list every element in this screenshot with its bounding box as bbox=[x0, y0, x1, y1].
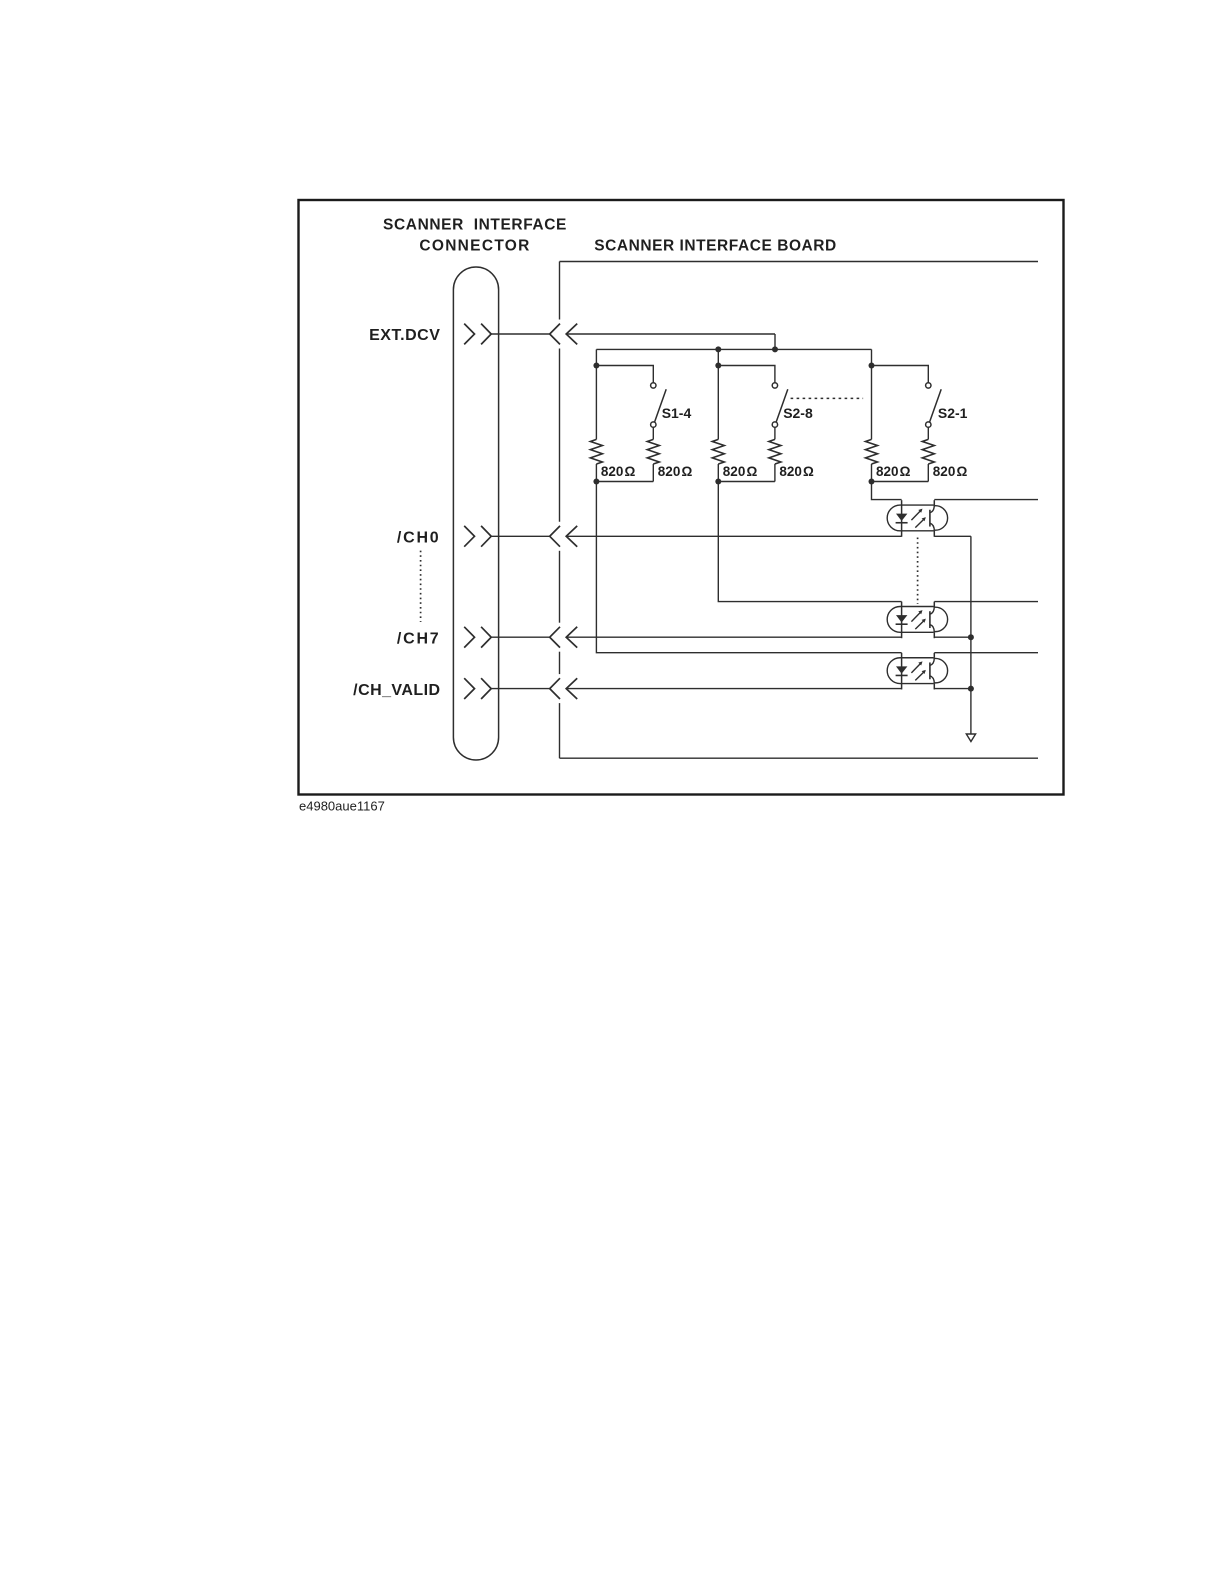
svg-text:820 Ω: 820 Ω bbox=[723, 464, 758, 479]
svg-text:820 Ω: 820 Ω bbox=[779, 464, 814, 479]
resistor R2a 820&#937; (pair2 left) bbox=[712, 439, 724, 464]
connector pins &gt;&gt; /CH_VALID bbox=[464, 678, 474, 699]
node pair1 bottom junction bbox=[593, 479, 599, 485]
svg-text:SCANNER INTERFACE BOARD: SCANNER INTERFACE BOARD bbox=[594, 238, 837, 255]
resistor R3a 820&#937; (pair3 left) bbox=[866, 439, 878, 464]
optocoupler U2 bbox=[887, 602, 947, 639]
switch S2-1 bbox=[926, 383, 931, 388]
node bus-pair2 junction bbox=[715, 346, 721, 352]
wire U1 collector output bbox=[934, 499, 1038, 501]
board pins &lt;&lt; /CH7 bbox=[550, 627, 560, 648]
wire U3 collector output bbox=[934, 652, 1038, 654]
connector pins &gt;&gt; EXT.DCV bbox=[464, 324, 474, 345]
wire pair2 right leg bottom bbox=[774, 464, 776, 482]
wire pair3 switch-to-resistor bbox=[927, 427, 929, 439]
figure frame bbox=[299, 200, 1064, 795]
svg-text:/CH0: /CH0 bbox=[397, 530, 441, 547]
node rail-U2 junction bbox=[968, 634, 974, 640]
switch S1-4 bbox=[651, 383, 656, 388]
wire EXT.DCV connector-to-board bbox=[491, 333, 550, 335]
svg-text:CONNECTOR: CONNECTOR bbox=[419, 238, 530, 255]
wire EXT.DCV to divider network bbox=[566, 333, 775, 335]
svg-text:820 Ω: 820 Ω bbox=[658, 464, 693, 479]
connector J1 outline bbox=[453, 267, 498, 760]
wire pair2 switch-to-resistor bbox=[774, 427, 776, 439]
connector pins &gt;&gt; /CH0 bbox=[464, 526, 474, 547]
wire pair3 left leg top bbox=[871, 349, 873, 439]
board pins &lt;&lt; /CH0 bbox=[550, 526, 560, 547]
wire pair1 right leg bottom bbox=[652, 464, 654, 482]
wire pair1 switch branch bbox=[596, 366, 653, 383]
wire pair3 right leg bottom bbox=[927, 464, 929, 482]
connector pins &gt;&gt; /CH7 bbox=[464, 627, 474, 648]
svg-text:S2-8: S2-8 bbox=[783, 405, 813, 421]
wire U3 emitter to rail bbox=[934, 688, 971, 690]
node bus-feed junction bbox=[772, 346, 778, 352]
node pair2 branch junction bbox=[715, 363, 721, 369]
wire pair1 switch-to-resistor bbox=[652, 427, 654, 439]
optocoupler U1 bbox=[887, 500, 947, 537]
wire U1 emitter to rail bbox=[934, 535, 971, 537]
wire /CH0 connector-to-board bbox=[491, 535, 550, 537]
wire pair3 bottom tie bbox=[872, 481, 929, 483]
resistor R1a 820&#937; (pair1 left) bbox=[590, 439, 602, 464]
svg-text:e4980aue1167: e4980aue1167 bbox=[299, 799, 385, 814]
wire U2 emitter to rail bbox=[934, 636, 971, 638]
dotted ellipsis U1..U2 bbox=[917, 538, 919, 605]
svg-text:/CH7: /CH7 bbox=[397, 630, 441, 647]
dotted ellipsis /CH0../CH7 bbox=[420, 551, 422, 622]
wire pair3 switch branch bbox=[872, 366, 929, 383]
ground bbox=[966, 734, 975, 742]
dashed link S2-8 to S2-1 (omitted switches) bbox=[791, 397, 864, 399]
optocoupler U3 bbox=[887, 653, 947, 690]
svg-text:S1-4: S1-4 bbox=[662, 405, 692, 421]
wire /CH0 to opto U1 cathode bbox=[566, 535, 901, 537]
wire /CH7 connector-to-board bbox=[491, 636, 550, 638]
wire pair2 left leg bottom / anode feed bbox=[718, 464, 901, 602]
node pair1 branch junction bbox=[593, 363, 599, 369]
svg-text:/CH_VALID: /CH_VALID bbox=[353, 682, 440, 699]
node rail-U3 junction bbox=[968, 686, 974, 692]
node pair3 branch junction bbox=[869, 363, 875, 369]
board pins &lt;&lt; /CH_VALID bbox=[550, 678, 560, 699]
svg-text:820 Ω: 820 Ω bbox=[933, 464, 968, 479]
board outline bbox=[560, 262, 1039, 759]
wire pair2 bottom tie bbox=[718, 481, 775, 483]
wire /CH7 to opto U2 cathode bbox=[566, 636, 901, 638]
wire pair2 left leg top bbox=[717, 349, 719, 439]
wire EXT.DCV bus bbox=[596, 348, 871, 350]
resistor R1b 820&#937; (pair1 right) bbox=[647, 439, 659, 464]
wire EXT.DCV drop bbox=[774, 334, 776, 349]
wire pair1 bottom tie bbox=[596, 481, 653, 483]
wire pair3 left leg bottom / anode feed bbox=[872, 464, 902, 500]
svg-text:S2-1: S2-1 bbox=[938, 405, 968, 421]
wire pair1 left leg top bbox=[595, 349, 597, 439]
wire /CH_VALID connector-to-board bbox=[491, 688, 550, 690]
node pair2 bottom junction bbox=[715, 479, 721, 485]
switch S2-8 bbox=[772, 383, 777, 388]
resistor R3b 820&#937; (pair3 right) bbox=[922, 439, 934, 464]
board pins &lt;&lt; EXT.DCV bbox=[550, 324, 560, 345]
wire pair2 switch branch bbox=[718, 366, 775, 383]
svg-text:820 Ω: 820 Ω bbox=[876, 464, 911, 479]
node pair3 bottom junction bbox=[869, 479, 875, 485]
svg-text:820 Ω: 820 Ω bbox=[601, 464, 636, 479]
wire ground rail bbox=[970, 536, 972, 734]
wire U2 collector output bbox=[934, 601, 1038, 603]
svg-text:EXT.DCV: EXT.DCV bbox=[369, 327, 440, 344]
wire pair1 left leg bottom / anode feed bbox=[596, 464, 901, 653]
wire /CH_VALID to opto U3 cathode bbox=[566, 688, 901, 690]
resistor R2b 820&#937; (pair2 right) bbox=[769, 439, 781, 464]
svg-text:SCANNER INTERFACE: SCANNER INTERFACE bbox=[383, 217, 567, 234]
